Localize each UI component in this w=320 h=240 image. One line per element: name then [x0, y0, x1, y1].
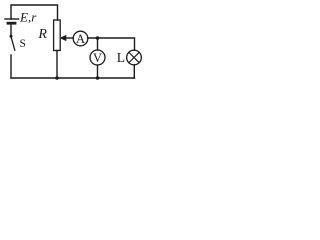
switch pivot dot	[10, 35, 13, 38]
wire top from battery to resistor branch	[11, 5, 58, 20]
svg-text:V: V	[93, 51, 102, 65]
wire wiper arrow shaft to ammeter	[66, 37, 74, 39]
svg-text:E,r: E,r	[19, 10, 37, 25]
wire resistor bottom to bottom wire	[56, 51, 58, 79]
wire battery to switch	[10, 25, 12, 36]
svg-text:L: L	[117, 50, 125, 65]
wire junction to voltmeter	[97, 38, 99, 50]
lamp L circle	[127, 50, 142, 65]
junction node at ammeter/voltmeter	[96, 36, 100, 40]
svg-text:A: A	[76, 32, 85, 46]
battery E,r long plate (+)	[5, 18, 19, 20]
svg-text:R: R	[37, 27, 47, 42]
wire lamp to bottom wire	[133, 65, 135, 78]
voltmeter V circle	[90, 50, 105, 65]
wire bottom	[11, 77, 135, 79]
switch S blade	[11, 36, 15, 50]
wiper arrowhead	[60, 35, 67, 41]
wire switch to bottom-left corner	[10, 55, 12, 78]
lamp L cross	[129, 52, 139, 62]
svg-text:S: S	[20, 38, 26, 50]
junction node voltmeter/bottom	[96, 76, 100, 80]
wire ammeter to lamp branch corner	[88, 38, 135, 50]
wire voltmeter to bottom wire	[97, 65, 99, 78]
junction node resistor/bottom	[55, 76, 59, 80]
ammeter A circle	[73, 31, 88, 46]
resistor R body	[54, 20, 61, 51]
battery E,r short thick plate (-)	[8, 22, 15, 25]
